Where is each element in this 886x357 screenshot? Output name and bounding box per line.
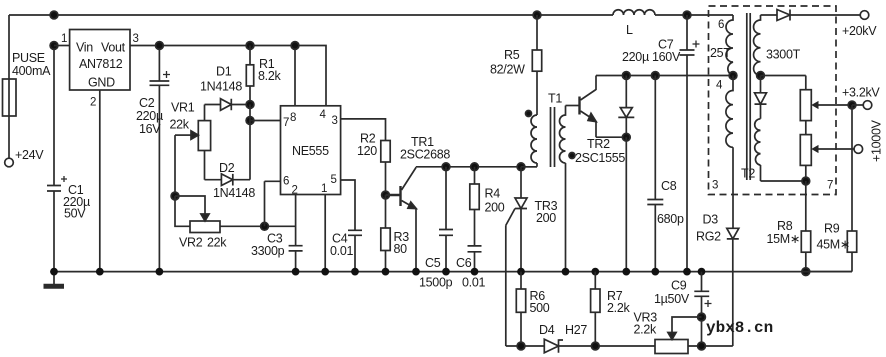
- svg-text:C9: C9: [671, 279, 687, 293]
- capacitor C8 680p: [647, 76, 684, 272]
- transformer T2 3T winding pin 3: [712, 76, 755, 229]
- svg-text:+24V: +24V: [15, 148, 44, 162]
- T1 primary polarity dot: [526, 111, 532, 117]
- svg-text:R8: R8: [777, 219, 793, 233]
- wiper arm VR3: [672, 317, 702, 333]
- wire AN7812 pin 3 Vcc rail: [130, 33, 326, 106]
- svg-text:6: 6: [718, 19, 724, 31]
- ground symbol: [44, 272, 65, 287]
- capacitor C5 1500p: [419, 167, 453, 290]
- node: T2 secondary tap: [757, 72, 765, 80]
- T1 secondary polarity dot: [569, 153, 575, 159]
- thyristor TR3 200: [506, 167, 558, 346]
- svg-text:1N4148: 1N4148: [213, 186, 255, 200]
- svg-text:2: 2: [292, 185, 298, 197]
- wire NE555 pin 3 output: [341, 119, 386, 141]
- node: D1 cathode junction: [246, 101, 254, 109]
- zener diode across TR2: [618, 76, 634, 138]
- svg-text:15M∗: 15M∗: [767, 232, 801, 246]
- svg-text:1: 1: [321, 183, 327, 195]
- resistor divider upper (3.2kV tap): [800, 76, 811, 135]
- svg-text:L: L: [626, 23, 633, 37]
- wire T2 tap to divider: [761, 75, 806, 77]
- svg-text:8.2k: 8.2k: [258, 69, 281, 83]
- capacitor C9 1u50V: [654, 272, 712, 346]
- svg-text:8: 8: [290, 112, 296, 124]
- svg-text:0.01: 0.01: [330, 244, 353, 258]
- svg-text:200: 200: [536, 211, 556, 225]
- svg-text:80: 80: [394, 242, 408, 256]
- svg-text:C8: C8: [661, 179, 677, 193]
- wiper VR1 arrow: [175, 134, 191, 136]
- svg-text:R4: R4: [485, 187, 501, 201]
- svg-text:ybx8.cn: ybx8.cn: [706, 319, 773, 337]
- svg-text:D4: D4: [539, 323, 555, 337]
- svg-text:3: 3: [332, 115, 338, 127]
- svg-text:45M∗: 45M∗: [817, 238, 851, 252]
- diode D4 H27: [539, 323, 587, 353]
- transformer T2 primary 25T winding pin 6: [710, 15, 733, 76]
- wire TR1 collector bus: [416, 166, 537, 168]
- svg-text:1: 1: [61, 33, 67, 45]
- node: pin 7 junction: [246, 117, 254, 125]
- wire VR2 right to C3 node: [220, 225, 296, 227]
- node: C9 wiper tap: [698, 313, 706, 321]
- svg-text:3300p: 3300p: [251, 244, 285, 258]
- node: pin1 junction: [50, 42, 58, 50]
- terminal +1000V: [854, 119, 884, 162]
- diode D2 1N4148: [205, 161, 256, 200]
- diode D5 HV output: [761, 10, 861, 21]
- svg-text:160V: 160V: [652, 50, 681, 64]
- diode D3 RG2: [696, 213, 739, 347]
- potentiometer VR1 22k: [170, 101, 211, 180]
- svg-text:82/2W: 82/2W: [490, 63, 525, 77]
- node: VR1 wiper / VR2 junction: [171, 192, 179, 200]
- resistor R9 45M: [806, 105, 857, 272]
- node: zener top: [622, 72, 630, 80]
- wiper arrow +1000V: [811, 145, 854, 153]
- svg-text:500: 500: [530, 301, 550, 315]
- wire to AN7812 pin 1: [54, 33, 70, 46]
- wire NE555 pin 1 to rail: [324, 195, 326, 272]
- wire fuse to +24V terminal: [8, 116, 10, 158]
- svg-text:D3: D3: [703, 213, 719, 227]
- svg-text:2SC2688: 2SC2688: [400, 148, 450, 162]
- wire T1 to TR2 base: [566, 105, 580, 107]
- resistor R3 80: [381, 195, 409, 272]
- node: R4 top: [471, 163, 479, 171]
- node: rail junctions left: [50, 268, 420, 276]
- node: pin 8 top: [291, 42, 299, 50]
- resistor R5 82/2W: [490, 15, 542, 115]
- transformer T2 secondary lower: [755, 119, 806, 181]
- terminal +3.2kV: [842, 86, 880, 110]
- wire VR1 wiper down: [174, 135, 176, 196]
- node: divider bottom / pin 7: [802, 177, 810, 185]
- svg-text:7: 7: [827, 180, 833, 192]
- svg-text:+1000V: +1000V: [870, 119, 884, 162]
- svg-text:680p: 680p: [657, 212, 684, 226]
- capacitor C4 0.01: [330, 230, 362, 271]
- svg-text:2: 2: [90, 97, 96, 109]
- node: C2 top: [156, 42, 164, 50]
- svg-text:R9: R9: [824, 222, 840, 236]
- fuse F1 PUSE 400mA: [3, 51, 52, 116]
- T1 core: [551, 107, 555, 167]
- node: R6 bottom: [517, 342, 525, 350]
- transformer T1 primary winding: [521, 92, 562, 167]
- terminal +20kV: [842, 11, 877, 38]
- svg-text:AN7812: AN7812: [79, 57, 123, 71]
- wire zener junction to rail: [625, 137, 627, 271]
- svg-text:T1: T1: [548, 92, 562, 106]
- node: R9 top: [848, 101, 856, 109]
- wire top +24V rail: [9, 15, 733, 79]
- svg-text:6: 6: [283, 176, 289, 188]
- svg-text:+20kV: +20kV: [842, 24, 877, 38]
- svg-text:H27: H27: [565, 323, 587, 337]
- capacitor C1 220u 50V: [47, 46, 90, 272]
- node: R8 bottom rail: [802, 268, 810, 276]
- svg-text:+3.2kV: +3.2kV: [842, 86, 880, 100]
- wire R1/D1 column to D2: [249, 105, 251, 180]
- svg-text:C2: C2: [139, 96, 155, 110]
- node: pin6/VR2 junction: [261, 222, 269, 230]
- node: TR2 emitter junction: [622, 133, 630, 141]
- svg-text:TR2: TR2: [587, 137, 610, 151]
- transformer T2 secondary 3300T upper: [754, 15, 801, 76]
- node: R7 bottom: [591, 342, 599, 350]
- svg-text:RG2: RG2: [696, 230, 721, 244]
- node: C5 top: [442, 163, 450, 171]
- svg-text:1500p: 1500p: [419, 276, 453, 290]
- wiper arrow +3.2kV: [811, 101, 852, 109]
- svg-text:220µ: 220µ: [622, 50, 649, 64]
- capacitor C7 220u 160V: [622, 15, 700, 272]
- transistor TR1 2SC2688: [386, 135, 451, 272]
- resistor R4 200: [470, 167, 505, 246]
- inductor L: [613, 10, 655, 37]
- terminal +24V: [5, 148, 45, 167]
- svg-text:PUSE: PUSE: [12, 51, 45, 65]
- svg-text:4: 4: [716, 80, 723, 92]
- svg-text:220µ: 220µ: [136, 109, 163, 123]
- wire NE555 pin 5: [341, 180, 355, 230]
- svg-text:D2: D2: [219, 161, 235, 175]
- timer U1 NE555: [281, 106, 341, 197]
- svg-text:22k: 22k: [207, 236, 227, 250]
- svg-text:25T: 25T: [710, 46, 731, 60]
- svg-text:Vout: Vout: [101, 41, 126, 55]
- svg-text:1µ50V: 1µ50V: [654, 292, 690, 306]
- svg-text:16V: 16V: [139, 122, 161, 136]
- svg-text:1N4148: 1N4148: [200, 80, 242, 94]
- svg-text:5: 5: [331, 174, 337, 186]
- svg-text:2.2k: 2.2k: [607, 301, 630, 315]
- wire AN7812 pin 2 GND to rail: [90, 90, 100, 272]
- resistor R7 2.2k: [591, 272, 631, 346]
- svg-text:3: 3: [712, 180, 718, 192]
- svg-text:T2: T2: [741, 167, 755, 181]
- svg-text:4: 4: [320, 109, 327, 121]
- resistor R1 8.2k: [246, 46, 281, 105]
- svg-text:2.2k: 2.2k: [634, 323, 657, 337]
- node: C8 top: [651, 72, 659, 80]
- svg-text:VR2: VR2: [179, 236, 203, 250]
- svg-text:Vin: Vin: [76, 41, 93, 55]
- capacitor C6 0.01: [456, 246, 485, 290]
- transistor TR2 2SC1555: [575, 76, 626, 166]
- regulator U2 AN7812: [70, 30, 130, 91]
- wire to NE555 pin 6: [265, 181, 281, 226]
- capacitor C3 3300p: [251, 232, 303, 272]
- svg-text:0.01: 0.01: [462, 276, 485, 290]
- node: C7 top: [683, 11, 691, 19]
- svg-text:2SC1555: 2SC1555: [575, 151, 625, 165]
- diode internal HV: [755, 76, 767, 119]
- svg-text:50V: 50V: [64, 207, 86, 221]
- svg-text:NE555: NE555: [292, 144, 329, 158]
- potentiometer VR3 2.2k: [634, 311, 689, 354]
- svg-text:VR1: VR1: [171, 101, 195, 115]
- svg-text:3: 3: [133, 33, 139, 45]
- svg-text:200: 200: [485, 201, 505, 215]
- node: R5 top: [533, 11, 541, 19]
- svg-text:22k: 22k: [170, 118, 190, 132]
- resistor R2 120: [357, 132, 390, 196]
- wire bottom loop: [506, 345, 733, 347]
- svg-text:R5: R5: [504, 48, 520, 62]
- node: R1 top: [246, 42, 254, 50]
- svg-text:3300T: 3300T: [766, 48, 801, 62]
- diode D1 1N4148: [200, 65, 250, 111]
- potentiometer VR2 22k: [179, 221, 227, 250]
- wire NE555 pin 2 column: [295, 195, 297, 246]
- svg-text:120: 120: [357, 144, 377, 158]
- node: TR1 base junction: [382, 191, 390, 199]
- dashed enclosure T2 assembly: [709, 6, 837, 195]
- capacitor C2 220u 16V: [136, 46, 170, 272]
- svg-text:400mA: 400mA: [12, 64, 51, 78]
- svg-text:GND: GND: [88, 76, 115, 90]
- wire VR2 left terminal: [175, 196, 190, 226]
- node: T2 pin 4 tap: [729, 72, 737, 80]
- resistor R8 15M: [767, 181, 811, 272]
- node: top rail / C1 junction: [50, 11, 58, 19]
- wire TR2 collector bus: [596, 75, 733, 77]
- svg-text:7: 7: [283, 117, 289, 129]
- wire VR2 wiper arm: [175, 196, 205, 214]
- svg-text:C6: C6: [456, 256, 472, 270]
- resistor divider lower (1000V tap): [800, 135, 811, 181]
- resistor R6 500: [516, 272, 550, 346]
- svg-text:D1: D1: [216, 65, 232, 79]
- wire ground rail: [54, 271, 852, 273]
- node: rail junctions right: [442, 268, 705, 276]
- node: TR3 / T1 junction: [517, 163, 525, 171]
- wire to NE555 pin 7: [250, 120, 281, 122]
- T2 core: [747, 13, 750, 180]
- node: C9 bottom: [698, 342, 706, 350]
- transformer T1 secondary winding: [560, 106, 566, 272]
- svg-text:C5: C5: [425, 256, 441, 270]
